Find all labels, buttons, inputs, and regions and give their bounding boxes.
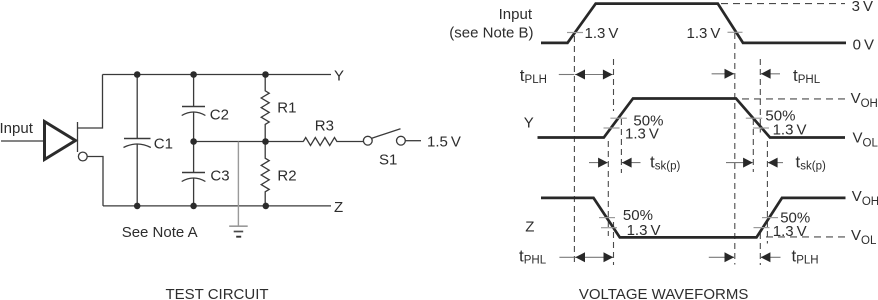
tPHL top arrows	[712, 69, 780, 79]
junction dot bottom C3	[190, 203, 197, 210]
dashed line F outputs 1.3V right upper	[759, 59, 761, 133]
dashed line F outputs 1.3V right lower	[759, 233, 761, 265]
svg-text:VOH: VOH	[851, 90, 878, 110]
svg-text:1.3 V: 1.3 V	[585, 25, 619, 42]
label tsk(p) right	[796, 152, 826, 172]
tick Z fall 50pct	[599, 217, 615, 219]
svg-text:3 V: 3 V	[852, 0, 873, 15]
svg-text:R3: R3	[315, 117, 334, 134]
resistor R1	[261, 75, 269, 142]
svg-text:C3: C3	[210, 167, 229, 184]
label TEST CIRCUIT	[165, 286, 268, 300]
svg-text:R2: R2	[277, 168, 296, 185]
dashed line B outputs 1.3V left upper	[613, 59, 615, 111]
resistor R3	[303, 138, 363, 146]
svg-text:S1: S1	[379, 152, 397, 169]
tick input fall 1.3V	[728, 31, 743, 33]
label VOL for Z	[851, 227, 877, 247]
Y waveform	[538, 99, 846, 138]
junction dot top R1	[262, 71, 269, 78]
value 50pct Y rise	[633, 112, 663, 129]
svg-text:tPLH: tPLH	[792, 246, 819, 266]
svg-text:VOH: VOH	[852, 188, 878, 208]
svg-text:tPLH: tPLH	[520, 66, 547, 86]
junction dot top C1	[134, 71, 141, 78]
label 1.5 V	[427, 134, 461, 151]
label Input waveform	[499, 6, 533, 23]
dashed line E input fall crossing	[734, 33, 736, 265]
tick Y fall 50pct	[746, 117, 762, 119]
dashed line G Y 50pct right	[752, 119, 754, 172]
label R3	[315, 117, 334, 134]
inverting bubble	[78, 152, 87, 161]
value 1.3 V input fall	[687, 25, 721, 42]
op-amp U1 driver triangle	[45, 122, 76, 160]
capacitor C1	[124, 75, 151, 206]
svg-text:Input: Input	[499, 6, 533, 23]
svg-text:TEST CIRCUIT: TEST CIRCUIT	[165, 286, 268, 300]
svg-text:Z: Z	[525, 218, 534, 235]
svg-text:VOL: VOL	[853, 129, 878, 149]
junction dot mid R1R2	[262, 138, 269, 145]
value 50pct Z rise	[780, 209, 810, 226]
value 1.3 V Y fall	[773, 121, 807, 138]
wire ground branch	[237, 142, 239, 227]
wire output stem	[77, 122, 79, 152]
VOH dashed level Y	[742, 98, 845, 100]
label tPHL top	[793, 66, 821, 86]
svg-text:(see Note B): (see Note B)	[449, 25, 533, 42]
wire noninverting branch	[78, 75, 103, 129]
svg-text:tsk(p): tsk(p)	[796, 152, 826, 172]
ground	[229, 226, 248, 237]
svg-text:tsk(p): tsk(p)	[650, 152, 680, 172]
value 1.3 V Z rise	[773, 223, 807, 240]
wire inverting branch	[87, 157, 103, 206]
label C3	[210, 167, 229, 184]
node Z label	[334, 199, 343, 216]
label tPLH top	[520, 66, 547, 86]
svg-text:Z: Z	[334, 199, 343, 216]
tick Z rise 1.3V	[754, 227, 770, 229]
capacitor C2	[182, 75, 206, 142]
label C1	[154, 136, 173, 153]
svg-text:See Note A: See Note A	[122, 224, 198, 241]
label 3 V	[852, 0, 873, 15]
dashed line B outputs 1.3V left lower	[613, 222, 615, 265]
label VOLTAGE WAVEFORMS	[579, 286, 748, 300]
3V dashed level	[721, 3, 845, 5]
svg-text:tPHL: tPHL	[793, 66, 821, 86]
svg-text:R1: R1	[277, 99, 296, 116]
svg-text:VOLTAGE WAVEFORMS: VOLTAGE WAVEFORMS	[579, 286, 748, 300]
junction dot bottom R2	[263, 203, 270, 210]
tsk(p) right arrows	[726, 158, 783, 168]
Z waveform	[541, 198, 846, 238]
svg-text:C1: C1	[154, 136, 173, 153]
label VOH for Y	[851, 90, 878, 110]
tPLH top arrow	[559, 70, 613, 80]
label tsk(p) left	[650, 152, 680, 172]
svg-text:Y: Y	[524, 115, 534, 132]
junction dot top C2	[190, 71, 197, 78]
label VOH for Z	[852, 188, 878, 208]
svg-text:1.3 V: 1.3 V	[625, 125, 659, 142]
svg-text:1.3 V: 1.3 V	[627, 222, 661, 239]
svg-text:1.3 V: 1.3 V	[687, 25, 721, 42]
label See Note A	[122, 224, 198, 241]
dashed line A input rise crossing	[573, 36, 575, 265]
svg-text:VOL: VOL	[851, 227, 877, 247]
label Z waveform	[525, 218, 534, 235]
resistor R2	[261, 142, 269, 206]
value 1.3 V Z fall	[627, 222, 661, 239]
tick input rise 1.3V	[567, 32, 583, 34]
svg-text:Input: Input	[0, 120, 34, 137]
value 1.3 V input rise	[585, 25, 619, 42]
tsk(p) left arrows	[589, 158, 641, 168]
value 50pct Z fall	[623, 207, 653, 224]
label S1	[379, 152, 397, 169]
input label	[0, 120, 34, 137]
wire top rail to Y	[103, 74, 332, 76]
tick Y fall 1.3V	[753, 127, 769, 129]
wire input lead	[1, 140, 44, 142]
svg-text:tPHL: tPHL	[519, 246, 547, 266]
switch S1	[363, 129, 421, 145]
input waveform	[541, 4, 846, 43]
label see Note B	[449, 25, 533, 42]
tPHL bottom arrow	[559, 252, 613, 262]
node Y label	[334, 68, 344, 85]
wire mid row	[194, 141, 304, 143]
tick Y rise 1.3V	[604, 127, 620, 129]
label tPLH bottom	[792, 246, 819, 266]
value 1.3 V Y rise	[625, 125, 659, 142]
junction dot mid C2C3	[190, 138, 197, 145]
VOL dashed level Z	[766, 236, 849, 238]
value 50pct Y fall	[765, 108, 795, 125]
svg-text:1.3 V: 1.3 V	[773, 223, 807, 240]
label tPHL bottom	[519, 246, 547, 266]
svg-text:1.5 V: 1.5 V	[427, 134, 461, 151]
svg-text:C2: C2	[210, 107, 229, 124]
dashed line H Z 50pct right	[766, 141, 768, 244]
junction dot bottom C1	[134, 203, 141, 210]
svg-text:0 V: 0 V	[853, 37, 874, 54]
svg-text:Y: Y	[334, 68, 344, 85]
capacitor C3	[182, 142, 206, 206]
wire bottom rail to Z	[103, 205, 331, 207]
label 0 V	[853, 37, 874, 54]
dashed line D Y 50pct left	[620, 119, 622, 173]
label R1	[277, 99, 296, 116]
tick Y rise 50pct	[610, 117, 626, 119]
label VOL for Y	[853, 129, 878, 149]
dashed line C Z 50pct left	[607, 141, 609, 236]
label R2	[277, 168, 296, 185]
tick Z fall 1.3V	[601, 227, 617, 229]
label C2	[210, 107, 229, 124]
tPLH bottom arrows	[709, 252, 781, 262]
label Y waveform	[524, 115, 534, 132]
tick Z rise 50pct	[762, 217, 778, 219]
svg-text:1.3 V: 1.3 V	[773, 121, 807, 138]
